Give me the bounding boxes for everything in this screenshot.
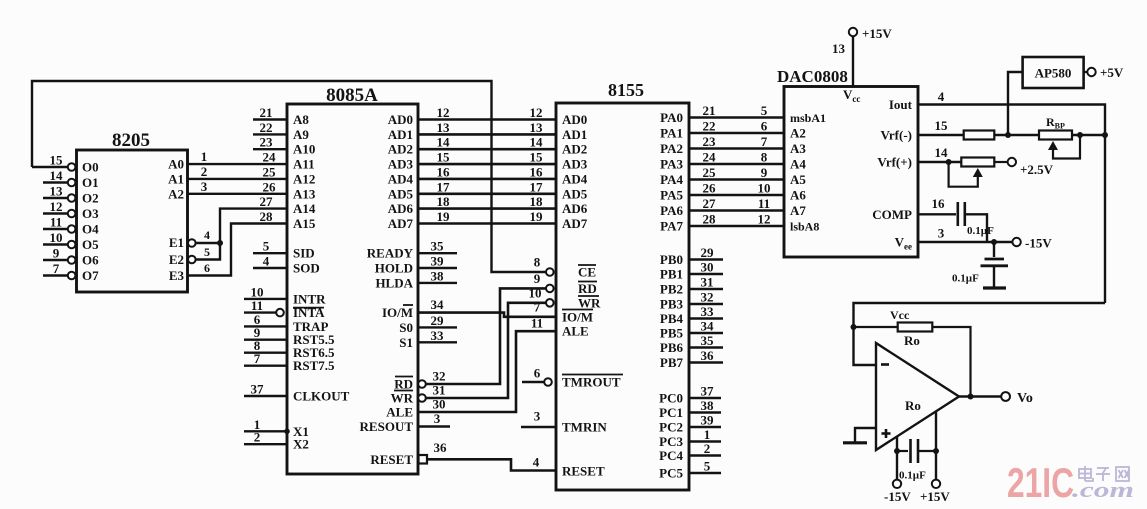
- wire V- supply: [896, 436, 898, 479]
- svg-text:19: 19: [437, 209, 451, 224]
- terminal +15V: [932, 480, 940, 488]
- svg-text:28: 28: [260, 209, 274, 224]
- pin 10 8205 O5 stub: [43, 243, 68, 245]
- resistor on Vrf(-): [918, 134, 964, 136]
- svg-text:6: 6: [761, 119, 768, 134]
- svg-text:18: 18: [530, 194, 544, 209]
- svg-text:WR: WR: [578, 295, 601, 310]
- wire PA3 to DAC: [689, 163, 784, 166]
- svg-text:26: 26: [703, 181, 717, 196]
- svg-text:PC3: PC3: [659, 434, 683, 449]
- svg-text:PB7: PB7: [660, 355, 684, 370]
- svg-text:37: 37: [251, 382, 265, 397]
- svg-text:38: 38: [431, 268, 445, 283]
- svg-text:AD0: AD0: [388, 112, 413, 127]
- svg-text:2: 2: [704, 441, 711, 456]
- svg-text:23: 23: [260, 135, 274, 150]
- pin 9 8085 RST5.5 stub: [244, 339, 287, 341]
- svg-text:39: 39: [701, 413, 715, 428]
- pin 7 8205 O7 stub: [43, 274, 68, 276]
- wire AD6 bus: [418, 207, 556, 210]
- svg-text:38: 38: [701, 398, 715, 413]
- svg-text:33: 33: [431, 328, 445, 343]
- svg-text:18: 18: [437, 194, 451, 209]
- svg-text:7: 7: [53, 261, 60, 276]
- wire 8205 A2 to 8085: [188, 193, 288, 195]
- wire Iout pin 4: [918, 105, 1105, 304]
- pin 6 8085 TRAP stub: [244, 325, 287, 327]
- pin 38 8085 stub: [418, 282, 457, 284]
- pin 29 8085 stub: [418, 326, 457, 328]
- svg-text:O6: O6: [82, 253, 99, 268]
- wire PA6 to DAC: [689, 209, 784, 212]
- capacitor 0.1uF COMP: [918, 213, 956, 215]
- io chip 8155: [556, 103, 689, 490]
- svg-text:3: 3: [938, 226, 945, 241]
- svg-text:E1: E1: [169, 235, 184, 250]
- pin 6 8155 TMROUT: [522, 381, 544, 383]
- svg-text:X2: X2: [293, 437, 309, 452]
- svg-text:O7: O7: [82, 268, 99, 283]
- svg-text:36: 36: [434, 440, 448, 455]
- svg-text:15: 15: [437, 150, 451, 165]
- wire AD3 bus: [418, 163, 556, 166]
- svg-text:13: 13: [530, 120, 544, 135]
- svg-text:AD7: AD7: [562, 216, 588, 231]
- op-amp plus input mark: [882, 432, 891, 435]
- svg-text:17: 17: [530, 179, 544, 194]
- pin 5 PC5 stub: [689, 472, 721, 474]
- wire chip-select bus (O0 to CE): [32, 81, 546, 272]
- svg-text:+2.5V: +2.5V: [1020, 162, 1054, 177]
- svg-text:A7: A7: [790, 203, 806, 218]
- svg-text:AD1: AD1: [388, 127, 413, 142]
- svg-text:0.1µF: 0.1µF: [899, 470, 926, 482]
- svg-text:A2: A2: [168, 186, 184, 201]
- cpu 8085A: [287, 104, 418, 474]
- wire 8205 A1 to 8085: [188, 178, 288, 180]
- svg-text:A1: A1: [168, 171, 184, 186]
- wire AP580 to Vrf(-) line: [1008, 72, 1023, 135]
- svg-text:A9: A9: [293, 127, 309, 142]
- svg-text:msbA1: msbA1: [790, 111, 826, 125]
- svg-text:23: 23: [703, 134, 717, 149]
- capacitor 0.1uF supplies: [897, 450, 908, 452]
- svg-text:O3: O3: [82, 206, 99, 221]
- svg-text:11: 11: [758, 196, 770, 211]
- svg-text:Vcc: Vcc: [890, 308, 910, 322]
- svg-text:PA5: PA5: [660, 188, 683, 203]
- pin 35 8085 stub: [418, 252, 457, 254]
- svg-text:IO/M: IO/M: [382, 305, 413, 320]
- svg-text:+15V: +15V: [920, 489, 950, 504]
- svg-text:35: 35: [701, 333, 715, 348]
- pin 11 8205 O4 stub: [43, 228, 68, 230]
- wire AP580 to +5V: [1084, 71, 1088, 73]
- wire PA0 to DAC: [689, 116, 784, 119]
- svg-text:29: 29: [701, 245, 715, 260]
- svg-text:7: 7: [761, 134, 768, 149]
- svg-text:10: 10: [50, 230, 63, 245]
- pin 22 8085 A9 stub: [253, 133, 287, 135]
- svg-text:5: 5: [761, 103, 768, 118]
- svg-text:A2: A2: [790, 126, 806, 141]
- wire AD4 bus: [418, 178, 556, 181]
- svg-text:AD6: AD6: [562, 201, 588, 216]
- svg-text:14: 14: [50, 168, 64, 183]
- svg-text:HLDA: HLDA: [375, 275, 413, 290]
- svg-text:PB3: PB3: [660, 297, 684, 312]
- pin 3 8085 RESOUT stub: [418, 425, 450, 427]
- svg-text:AD2: AD2: [388, 142, 413, 157]
- svg-text:PA3: PA3: [660, 157, 683, 172]
- svg-text:O0: O0: [82, 160, 99, 175]
- svg-text:14: 14: [530, 135, 544, 150]
- svg-text:RESET: RESET: [370, 452, 413, 467]
- pin 3 8155 TMRIN: [521, 426, 556, 428]
- wire feedback loop top: [854, 303, 1106, 365]
- svg-text:9: 9: [53, 246, 60, 261]
- svg-text:5: 5: [204, 245, 210, 259]
- svg-text:CLKOUT: CLKOUT: [293, 389, 350, 404]
- wire RESET 8085-8155: [419, 455, 428, 464]
- svg-text:.com: .com: [1072, 477, 1134, 502]
- svg-text:29: 29: [431, 313, 445, 328]
- svg-text:A4: A4: [790, 157, 806, 172]
- svg-text:34: 34: [431, 297, 445, 312]
- wire E3 to 8085 A15: [188, 224, 288, 276]
- svg-text:7: 7: [534, 300, 541, 315]
- pin 7 8085 RST7.5 stub: [244, 365, 287, 367]
- power +15V pin 13: [849, 28, 857, 36]
- wire AD5 bus: [418, 193, 556, 196]
- svg-text:READY: READY: [367, 246, 414, 261]
- pin 21 8085 A8 stub: [253, 118, 287, 120]
- svg-text:4: 4: [938, 89, 945, 104]
- svg-text:Vo: Vo: [1017, 391, 1033, 406]
- pin 37 8085 CLKOUT stub: [244, 395, 287, 397]
- wire IO/M 8085-8155: [418, 313, 556, 317]
- svg-text:TMROUT: TMROUT: [562, 375, 621, 390]
- wire AD2 bus: [418, 148, 556, 151]
- wire AD1 bus: [418, 133, 556, 136]
- svg-text:19: 19: [530, 209, 544, 224]
- svg-text:+5V: +5V: [1100, 65, 1124, 80]
- svg-text:PC4: PC4: [659, 448, 683, 463]
- svg-text:RD: RD: [394, 377, 413, 392]
- svg-text:S1: S1: [399, 335, 413, 350]
- svg-text:PC2: PC2: [659, 420, 683, 435]
- svg-text:22: 22: [703, 119, 716, 134]
- wire PA5 to DAC: [689, 194, 784, 197]
- svg-text:PA7: PA7: [660, 219, 683, 234]
- svg-text:31: 31: [433, 383, 446, 398]
- pin 34 PB5 stub: [689, 332, 723, 334]
- svg-text:22: 22: [260, 120, 273, 135]
- svg-text:PA1: PA1: [660, 126, 683, 141]
- svg-text:O1: O1: [82, 175, 99, 190]
- pin 11 8085 INTA stub: [244, 311, 276, 313]
- svg-text:24: 24: [703, 150, 717, 165]
- svg-text:E2: E2: [169, 252, 184, 267]
- svg-text:PB2: PB2: [660, 282, 683, 297]
- pin 30 PB1 stub: [689, 273, 723, 275]
- svg-text:AD6: AD6: [388, 201, 414, 216]
- svg-text:11: 11: [531, 316, 543, 331]
- svg-text:16: 16: [932, 196, 946, 211]
- pin 9 8205 O6 stub: [43, 259, 68, 261]
- svg-text:AD3: AD3: [562, 157, 588, 172]
- svg-text:32: 32: [701, 290, 714, 305]
- svg-text:+15V: +15V: [862, 26, 892, 41]
- svg-text:10: 10: [758, 181, 771, 196]
- pin 5 8085 SID stub: [253, 252, 287, 254]
- svg-text:8205: 8205: [112, 130, 150, 151]
- svg-text:A8: A8: [293, 112, 309, 127]
- svg-text:9: 9: [534, 271, 541, 286]
- wire WR 8085-8155: [418, 394, 426, 402]
- svg-text:O5: O5: [82, 237, 99, 252]
- svg-text:PA6: PA6: [660, 203, 683, 218]
- svg-text:21IC: 21IC: [1007, 459, 1074, 506]
- svg-text:13: 13: [50, 184, 64, 199]
- wire Vee pin 3 to -15V: [918, 241, 1013, 243]
- svg-text:14: 14: [437, 135, 451, 150]
- svg-text:7: 7: [254, 351, 261, 366]
- svg-text:12: 12: [530, 105, 543, 120]
- svg-text:16: 16: [437, 164, 451, 179]
- svg-text:28: 28: [703, 212, 717, 227]
- svg-text:PB4: PB4: [660, 311, 684, 326]
- svg-text:HOLD: HOLD: [375, 261, 413, 276]
- resistor Ro feedback: [854, 326, 898, 328]
- dac DAC0808: [784, 87, 918, 258]
- svg-text:PC0: PC0: [659, 391, 683, 406]
- pin 31 PB2 stub: [689, 288, 723, 290]
- svg-text:15: 15: [50, 153, 64, 168]
- svg-text:IO/M: IO/M: [562, 309, 593, 324]
- svg-text:AD2: AD2: [562, 142, 587, 157]
- svg-text:0.1µF: 0.1µF: [952, 273, 979, 285]
- pin 8 8085 RST6.5 stub: [244, 352, 287, 354]
- svg-text:S0: S0: [399, 320, 413, 335]
- node Iout-Vrf junction: [1102, 132, 1108, 138]
- svg-text:17: 17: [437, 179, 451, 194]
- svg-text:E3: E3: [169, 268, 185, 283]
- svg-text:A15: A15: [293, 216, 316, 231]
- pin 39 8085 stub: [418, 267, 457, 269]
- svg-text:PC1: PC1: [659, 405, 683, 420]
- svg-text:AD0: AD0: [562, 112, 587, 127]
- svg-text:25: 25: [263, 164, 277, 179]
- pin 23 8085 A10 stub: [253, 148, 287, 150]
- ground below Vee cap: [983, 286, 1006, 289]
- svg-text:8: 8: [534, 255, 541, 270]
- wire AD0 bus: [418, 118, 556, 121]
- svg-text:0.1µF: 0.1µF: [967, 225, 994, 237]
- svg-text:A10: A10: [293, 142, 315, 157]
- svg-text:PC5: PC5: [659, 466, 683, 481]
- svg-text:8: 8: [761, 150, 768, 165]
- pin 38 PC1 stub: [689, 411, 721, 413]
- svg-text:Ro: Ro: [905, 398, 921, 413]
- svg-text:3: 3: [201, 179, 208, 194]
- svg-text:36: 36: [701, 348, 715, 363]
- capacitor 0.1uF on Vee: [993, 242, 995, 257]
- svg-text:A12: A12: [293, 171, 315, 186]
- svg-text:lsbA8: lsbA8: [790, 220, 819, 234]
- wire RD 8085-8155: [418, 380, 426, 388]
- svg-text:A14: A14: [293, 201, 316, 216]
- pin 33 8085 stub: [418, 341, 457, 343]
- wire op-amp output: [959, 395, 1001, 397]
- svg-text:24: 24: [263, 150, 277, 165]
- svg-text:4: 4: [263, 254, 270, 269]
- svg-text:AD5: AD5: [388, 186, 414, 201]
- svg-text:2: 2: [201, 164, 208, 179]
- svg-text:13: 13: [437, 120, 451, 135]
- svg-text:A0: A0: [168, 157, 184, 172]
- svg-text:15: 15: [530, 150, 544, 165]
- svg-text:O2: O2: [82, 191, 99, 206]
- wire E1-E2 to 8085 A14: [196, 242, 220, 244]
- node AP580 tap: [1005, 132, 1011, 138]
- svg-text:PB1: PB1: [660, 267, 683, 282]
- svg-text:A6: A6: [790, 188, 806, 203]
- svg-text:39: 39: [431, 254, 445, 269]
- svg-text:26: 26: [263, 179, 277, 194]
- svg-text:SOD: SOD: [293, 261, 320, 276]
- svg-text:RESET: RESET: [562, 464, 605, 479]
- svg-text:-15V: -15V: [1025, 236, 1052, 251]
- wire PA7 to DAC: [689, 225, 784, 228]
- svg-text:3: 3: [534, 409, 541, 424]
- svg-text:16: 16: [530, 164, 544, 179]
- pin 2 PC4 stub: [689, 454, 721, 456]
- pin 2 8085 X2 stub: [244, 443, 287, 445]
- wire 8205 A0 to 8085: [188, 163, 288, 165]
- potentiometer on Vrf(+): [918, 161, 961, 163]
- svg-text:33: 33: [701, 304, 715, 319]
- svg-text:PB6: PB6: [660, 340, 684, 355]
- svg-text:PB0: PB0: [660, 252, 683, 267]
- terminal -15V: [893, 480, 901, 488]
- pin 14 8205 O1 stub: [43, 181, 68, 183]
- svg-text:A11: A11: [293, 157, 315, 172]
- pin 10 8085 INTR stub: [244, 298, 287, 300]
- pin 39 PC2 stub: [689, 426, 721, 428]
- svg-text:AD3: AD3: [388, 157, 414, 172]
- svg-text:15: 15: [935, 118, 949, 133]
- svg-text:4: 4: [533, 455, 540, 470]
- svg-text:30: 30: [433, 397, 446, 412]
- svg-text:4: 4: [204, 228, 210, 242]
- svg-text:1: 1: [201, 149, 208, 164]
- pin 13 8205 O2 stub: [43, 197, 68, 199]
- svg-text:TMRIN: TMRIN: [562, 420, 607, 435]
- svg-text:CE: CE: [578, 265, 596, 280]
- svg-text:6: 6: [534, 366, 541, 381]
- svg-text:RD: RD: [578, 281, 597, 296]
- svg-text:COMP: COMP: [872, 207, 912, 222]
- svg-text:ALE: ALE: [386, 405, 413, 420]
- decoder 8205: [77, 150, 188, 292]
- svg-text:A3: A3: [790, 141, 806, 156]
- svg-text:AD1: AD1: [562, 127, 587, 142]
- svg-text:34: 34: [701, 319, 715, 334]
- svg-text:25: 25: [703, 165, 717, 180]
- svg-text:A5: A5: [790, 172, 806, 187]
- svg-text:Iout: Iout: [889, 97, 913, 112]
- vref AP580: [1023, 57, 1084, 88]
- svg-text:PB5: PB5: [660, 326, 684, 341]
- wire PA2 to DAC: [689, 147, 784, 150]
- svg-text:PA2: PA2: [660, 141, 683, 156]
- wire non-inverting to ground: [855, 428, 876, 442]
- pin 36 PB7 stub: [689, 361, 723, 363]
- svg-text:-15V: -15V: [884, 489, 911, 504]
- svg-text:SID: SID: [293, 246, 315, 261]
- svg-text:Vrf(-): Vrf(-): [880, 128, 912, 143]
- wire V+ supply: [935, 411, 937, 479]
- svg-text:Vrf(+): Vrf(+): [877, 155, 912, 170]
- pin 35 PB6 stub: [689, 346, 723, 348]
- pin 37 PC0 stub: [689, 397, 721, 399]
- op-amp U1: [876, 343, 959, 450]
- svg-text:AD5: AD5: [562, 186, 588, 201]
- svg-text:6: 6: [204, 261, 210, 275]
- svg-text:DAC0808: DAC0808: [777, 67, 848, 86]
- svg-text:8085A: 8085A: [326, 85, 378, 106]
- pin 4 8085 SOD stub: [253, 267, 287, 269]
- svg-text:21: 21: [703, 103, 716, 118]
- wire AD7 bus: [418, 222, 556, 225]
- svg-text:12: 12: [758, 212, 771, 227]
- potentiometer RBP: [1039, 131, 1072, 140]
- svg-text:11: 11: [251, 298, 263, 313]
- svg-text:14: 14: [935, 145, 949, 160]
- svg-text:31: 31: [701, 275, 714, 290]
- op-amp minus input mark: [881, 363, 889, 366]
- pin 12 8205 O3 stub: [43, 212, 68, 214]
- ground at op-amp: [843, 441, 867, 444]
- svg-text:AD4: AD4: [388, 171, 414, 186]
- svg-text:O4: O4: [82, 222, 99, 237]
- svg-text:AD7: AD7: [388, 216, 414, 231]
- pin 1 PC3 stub: [689, 440, 721, 442]
- svg-text:12: 12: [50, 199, 63, 214]
- svg-text:Ro: Ro: [904, 333, 920, 348]
- svg-text:1: 1: [704, 427, 711, 442]
- svg-text:8155: 8155: [608, 80, 644, 100]
- node inverting input: [851, 324, 857, 330]
- svg-text:27: 27: [703, 196, 717, 211]
- pin 32 PB3 stub: [689, 303, 723, 305]
- wire PA1 to DAC: [689, 132, 784, 135]
- wire PA4 to DAC: [689, 178, 784, 181]
- svg-text:WR: WR: [391, 391, 414, 406]
- svg-text:PA4: PA4: [660, 172, 683, 187]
- svg-text:30: 30: [701, 260, 714, 275]
- svg-text:A13: A13: [293, 186, 316, 201]
- svg-text:11: 11: [50, 215, 62, 230]
- svg-text:35: 35: [431, 239, 445, 254]
- svg-text:5: 5: [704, 459, 711, 474]
- pin 1 8085 X1 stub: [244, 430, 287, 432]
- pin 29 PB0 stub: [689, 258, 723, 260]
- pin 33 PB4 stub: [689, 317, 723, 319]
- svg-text:5: 5: [263, 239, 270, 254]
